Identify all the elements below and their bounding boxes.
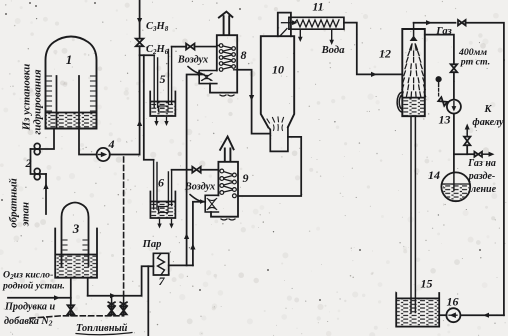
svg-text:разде-: разде-	[468, 171, 496, 182]
svg-text:Воздух: Воздух	[184, 182, 215, 193]
valve 13 sample	[438, 97, 447, 106]
pipe vessel1 bottom left drain	[31, 129, 55, 150]
furnace 8 chimney arrow	[219, 12, 233, 35]
svg-text:12: 12	[379, 47, 391, 61]
gas to separation branch	[467, 153, 474, 155]
pump 4	[97, 148, 110, 161]
heater 7 outlet	[169, 264, 193, 266]
arrow feed up	[137, 120, 142, 126]
pipe to flow meter	[453, 72, 455, 99]
vessel 12 liquid hatch	[403, 98, 425, 116]
saturator 5 dip tube left	[154, 55, 157, 107]
vessel 12 liquid surface	[403, 97, 425, 99]
pipe between orifices	[31, 149, 47, 174]
svg-text:9: 9	[243, 171, 249, 185]
saturator 5 bath	[150, 92, 175, 117]
vessel 10 catch pot	[268, 127, 288, 151]
furnace 9 burner flame symbol	[207, 199, 217, 210]
arrow gas right	[426, 20, 432, 25]
pipe gas to right edge	[466, 23, 504, 316]
furnace 8 burner box	[199, 71, 217, 84]
heat exchanger 11 coil zigzag	[294, 20, 339, 27]
water arrow left under 11	[299, 29, 301, 38]
svg-text:6: 6	[158, 176, 164, 190]
vessel 1 wall gauge ticks left	[47, 76, 52, 111]
fuel header line	[88, 295, 142, 297]
sphere 14 dip tube	[453, 172, 455, 190]
svg-text:Продувка и: Продувка и	[4, 302, 56, 313]
pipe tank 15 to pump 16	[439, 314, 446, 316]
vessel 12 shell	[402, 29, 425, 116]
valve on gas line	[458, 20, 466, 25]
fuel supply from bottom edge	[147, 266, 149, 336]
air arrow furnace 9	[190, 195, 203, 202]
pipe furnace 9 product	[238, 137, 301, 196]
pipe C3H8 feed from top	[139, 0, 141, 39]
saturator 6 dip tube right	[168, 170, 171, 206]
vessel 1 internal tube right	[78, 76, 80, 128]
heat exchanger 11 shell	[289, 17, 344, 29]
tank 15 liquid surface	[397, 297, 440, 299]
pipe 12 to vacuum line	[425, 35, 454, 65]
riser to furnace 9 burner	[193, 202, 205, 266]
furnace 9 burner box	[205, 195, 218, 212]
svg-text:рт ст.: рт ст.	[460, 57, 490, 68]
furnace 9 base marks	[221, 219, 235, 220]
svg-text:гидрирования: гидрирования	[32, 69, 44, 135]
valve leg A	[111, 296, 113, 316]
furnace 8 burner flame symbol	[202, 74, 213, 81]
saturator 5 dip tube right	[168, 47, 171, 104]
svg-text:родной устан.: родной устан.	[2, 281, 65, 292]
vessel 1 ethane storage tank shell	[46, 37, 97, 129]
furnace 9 shell	[211, 162, 238, 217]
svg-text:5: 5	[160, 72, 166, 86]
svg-text:Газ: Газ	[435, 26, 452, 37]
fuel riser corner	[142, 266, 154, 296]
vessel 3 inner shell	[62, 203, 89, 267]
svg-text:Пар: Пар	[142, 239, 162, 250]
vessel 1 liquid level line	[46, 112, 96, 114]
pipe meter down to junction	[453, 114, 455, 173]
valve leg B	[123, 296, 125, 316]
flare pipe with arrow	[466, 129, 468, 137]
saturator 6 liquid surface	[151, 201, 175, 203]
svg-text:11: 11	[312, 0, 323, 14]
arrow gas separation	[482, 153, 489, 155]
pipe right edge to pump 16	[460, 314, 504, 316]
svg-text:13: 13	[439, 113, 451, 127]
riser to furnace 8 burner	[187, 75, 204, 266]
saturator 6 heater block	[159, 207, 169, 213]
svg-text:8: 8	[241, 48, 247, 62]
vessel 10 pot flame ticks	[274, 125, 283, 131]
vessel 3 bath	[55, 229, 97, 278]
underline топливный	[76, 333, 132, 335]
saturator 6 bath	[150, 192, 175, 219]
pump 16	[446, 308, 460, 322]
saturator 5 drain arrows	[157, 118, 167, 124]
pipe gas outlet from 12	[414, 22, 456, 24]
vessel 1 internal tube left	[56, 76, 58, 128]
valve before furnace 8	[186, 44, 194, 50]
svg-text:10: 10	[272, 63, 284, 77]
saturator 5 heater block	[159, 106, 169, 112]
pipe furnace 8 product	[237, 70, 270, 134]
vessel 1 wall gauge ticks right	[91, 76, 96, 111]
svg-text:добавка N2: добавка N2	[4, 316, 53, 328]
vessel 1 liquid hatch	[46, 113, 96, 128]
svg-text:обратный: обратный	[8, 178, 20, 227]
vessel 3 bath hatch	[56, 255, 97, 277]
furnace 8 outlet short	[234, 69, 238, 71]
svg-text:Газ на: Газ на	[467, 158, 496, 169]
vessel 3 bath liquid surface	[56, 254, 97, 256]
neck corner mark	[280, 29, 287, 37]
svg-text:14: 14	[428, 168, 440, 182]
svg-text:ление: ление	[470, 184, 497, 195]
pipe branch to saturator 5	[140, 54, 155, 56]
pipe C2H6 main vertical	[139, 46, 141, 154]
pipe exchanger 11 to vessel 12	[344, 23, 402, 75]
valve on vessel3 left leg	[68, 305, 75, 314]
tank 15	[396, 293, 439, 327]
svg-text:Топливный: Топливный	[76, 323, 128, 334]
furnace 8 coil	[221, 46, 234, 70]
vessel 3 left leg	[70, 278, 72, 316]
svg-text:2: 2	[25, 156, 32, 170]
flare valve	[464, 137, 470, 146]
orifice meter upper (2)	[34, 143, 40, 149]
vessel 3 right leg	[87, 278, 89, 296]
orifice meter lower (2)	[34, 168, 40, 174]
dashed bypass line	[123, 157, 125, 295]
vessel 10 cone grate ticks	[267, 117, 284, 123]
arrow neck to exchanger	[282, 22, 294, 24]
heater 7 box	[153, 253, 168, 275]
valve vacuum 400mm	[451, 64, 458, 72]
saturator 5 liquid surface	[151, 101, 176, 103]
arrow into vessel 12	[371, 72, 377, 77]
saturator 6 liquid hatch	[151, 202, 175, 218]
svg-text:16: 16	[447, 295, 459, 309]
furnace 9 chimney arrow	[220, 137, 234, 162]
vessel 3 wall ticks right	[83, 240, 87, 260]
svg-text:этан: этан	[20, 202, 32, 227]
barometric leg pipe	[411, 116, 415, 312]
saturator 6 dip tube left	[154, 160, 157, 209]
pipe valve to furnace 8	[195, 46, 220, 47]
pipe vessel1 center to pump 4	[79, 129, 97, 155]
sphere 14 liquid	[443, 183, 470, 185]
flow meter 13 circle	[447, 100, 461, 114]
furnace 9 coil	[222, 171, 235, 193]
dashed purge manifold	[30, 316, 124, 318]
arrow flow to pump	[483, 313, 489, 318]
svg-text:Воздух: Воздух	[177, 55, 208, 66]
vessel 12 spray droplets	[410, 45, 412, 50]
vessel 3 wall ticks left	[63, 240, 67, 260]
svg-text:15: 15	[421, 277, 433, 291]
pipe saturator6 to furnace 9	[172, 169, 193, 171]
O2 feed line	[8, 297, 71, 299]
vessel 10 shell	[261, 36, 294, 127]
furnace 8 shell	[210, 35, 237, 92]
svg-text:7: 7	[159, 274, 166, 288]
vessel 12 spray pipe and nozzle	[413, 23, 415, 36]
svg-text:факелу: факелу	[472, 117, 504, 128]
valve C2H6 line	[136, 39, 144, 47]
arrow return ethane up	[43, 183, 48, 189]
arrow furnace 8 product down	[249, 95, 254, 101]
arrow C3H8 down	[137, 18, 142, 24]
saturator 5 liquid hatch	[151, 102, 175, 116]
svg-text:Вода: Вода	[321, 45, 345, 56]
pipe saturator5 to furnace 8	[172, 46, 187, 48]
vessel 10 outlet neck	[278, 13, 291, 37]
svg-text:К: К	[484, 104, 493, 115]
pipe branch to saturator 6	[144, 55, 154, 160]
water arrow right under 11	[331, 29, 333, 41]
separator sphere 14	[441, 172, 470, 201]
air arrow furnace 8	[188, 67, 201, 74]
furnace 8 base marks	[220, 95, 234, 96]
svg-text:1: 1	[66, 52, 73, 67]
valve before furnace 9	[192, 167, 200, 173]
tank 15 liquid hatch	[397, 299, 439, 326]
thermometer bulb	[436, 76, 442, 82]
svg-text:4: 4	[108, 137, 115, 151]
vessel 12 level gauge	[397, 92, 402, 112]
pipe return ethane down	[45, 174, 47, 214]
pipe pump 4 discharge	[110, 154, 140, 156]
flare branch	[454, 145, 467, 154]
svg-text:3: 3	[72, 221, 80, 236]
saturator 6 drain arrows	[160, 220, 172, 226]
pipe valve to furnace 9	[201, 169, 219, 171]
heater 7 zigzag	[158, 254, 165, 275]
valve gas separation	[474, 152, 482, 157]
